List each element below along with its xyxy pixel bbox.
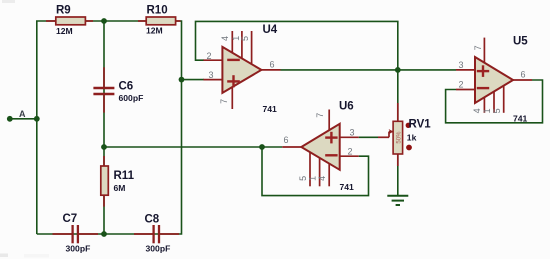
svg-text:1: 1	[482, 108, 492, 113]
svg-text:12M: 12M	[146, 26, 163, 36]
svg-text:1k: 1k	[407, 133, 417, 143]
svg-text:5: 5	[240, 36, 250, 41]
svg-text:RV1: RV1	[409, 119, 432, 131]
svg-text:2: 2	[459, 80, 464, 90]
svg-text:7: 7	[473, 45, 483, 50]
svg-text:4: 4	[472, 108, 482, 113]
svg-text:741: 741	[340, 182, 355, 192]
svg-text:3: 3	[209, 70, 214, 80]
svg-text:U4: U4	[263, 24, 278, 36]
svg-text:741: 741	[513, 114, 528, 124]
svg-text:C7: C7	[63, 213, 78, 225]
svg-text:A: A	[19, 109, 26, 119]
svg-text:12M: 12M	[56, 26, 73, 36]
svg-text:741: 741	[263, 104, 278, 114]
svg-text:6: 6	[521, 70, 526, 80]
svg-text:7: 7	[315, 113, 325, 118]
svg-text:U6: U6	[339, 101, 354, 113]
svg-text:300pF: 300pF	[146, 244, 171, 254]
svg-text:7: 7	[219, 99, 229, 104]
svg-text:R10: R10	[147, 5, 168, 17]
svg-text:3: 3	[459, 60, 464, 70]
svg-text:R9: R9	[56, 5, 71, 17]
svg-text:600pF: 600pF	[119, 93, 144, 103]
svg-text:C6: C6	[119, 81, 134, 93]
svg-text:4: 4	[220, 36, 230, 41]
svg-text:6M: 6M	[114, 183, 126, 193]
svg-text:C8: C8	[145, 214, 160, 226]
svg-text:R11: R11	[114, 170, 135, 182]
svg-text:6: 6	[270, 60, 275, 70]
svg-text:6: 6	[284, 135, 289, 145]
svg-text:3: 3	[350, 128, 355, 138]
svg-text:300pF: 300pF	[66, 244, 91, 254]
svg-text:2: 2	[348, 147, 353, 157]
svg-text:4: 4	[317, 176, 327, 181]
svg-text:U5: U5	[513, 36, 528, 48]
svg-text:5: 5	[298, 176, 308, 181]
svg-text:2: 2	[207, 51, 212, 61]
svg-text:50%: 50%	[396, 131, 402, 144]
svg-text:5: 5	[492, 108, 502, 113]
